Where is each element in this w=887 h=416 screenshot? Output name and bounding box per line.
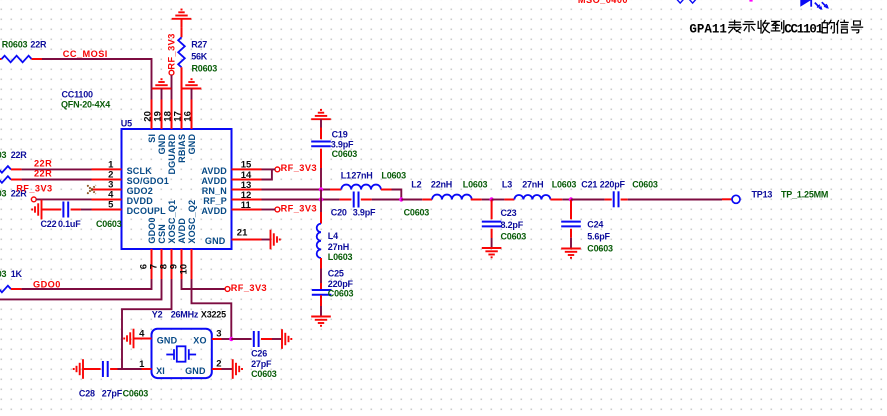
svg-text:22nH: 22nH bbox=[431, 179, 452, 189]
power port RF_3V3 (pin 11) bbox=[275, 203, 317, 213]
svg-text:22R: 22R bbox=[11, 150, 28, 160]
wire C28 node bbox=[118, 368, 142, 370]
capacitor C28 bbox=[83, 361, 118, 377]
svg-text:5.6pF: 5.6pF bbox=[587, 232, 610, 242]
wire pin 8 to crystal XI bbox=[122, 279, 172, 369]
label C24 5.6pF C0603 bbox=[587, 219, 613, 253]
svg-text:L0603: L0603 bbox=[381, 170, 406, 180]
resistor R27 56K bbox=[178, 19, 185, 100]
junction (401.3,199.5) bbox=[399, 197, 403, 201]
pin 4 DVDD bbox=[92, 190, 154, 206]
pin 9 AVDD (bottom) bbox=[169, 218, 187, 279]
pin 16 GND (top) bbox=[182, 100, 197, 155]
net label MSO_0400 (clipped at top) bbox=[578, 0, 628, 5]
resistor 22R (top-left, R0603) bbox=[0, 56, 42, 63]
crystal pin 2 GND bbox=[185, 359, 222, 377]
svg-text:0.1uF: 0.1uF bbox=[58, 219, 81, 229]
svg-text:AVDD: AVDD bbox=[177, 218, 187, 244]
ground (above R27) bbox=[172, 10, 192, 19]
svg-text:22R: 22R bbox=[34, 169, 52, 179]
label R0603 22R (row pin4, clipped) bbox=[0, 189, 27, 199]
svg-text:R27: R27 bbox=[191, 39, 207, 49]
footprint label QFN-20-4X4 bbox=[61, 100, 110, 110]
wire C25 to ground bbox=[320, 306, 322, 317]
capacitor C26 bbox=[231, 331, 282, 347]
svg-text:U5: U5 bbox=[121, 119, 132, 129]
svg-text:4: 4 bbox=[139, 328, 145, 339]
svg-text:56K: 56K bbox=[191, 51, 208, 61]
svg-text:5: 5 bbox=[108, 200, 114, 211]
svg-text:CC_MOSI: CC_MOSI bbox=[63, 49, 108, 59]
crystal Y2 26MHz X3225 body bbox=[152, 329, 212, 378]
svg-text:11: 11 bbox=[241, 200, 252, 211]
wire C21 to TP13 bbox=[628, 198, 732, 200]
svg-text:C28: C28 bbox=[79, 389, 95, 399]
net label CC_MOSI bbox=[63, 49, 108, 59]
crystal pin 4 GND bbox=[134, 328, 178, 345]
svg-text:27nH: 27nH bbox=[351, 170, 372, 180]
resistor 22R (row pin1, clipped) bbox=[0, 166, 22, 173]
pin 11 AVDD bbox=[201, 200, 261, 216]
svg-text:XI: XI bbox=[156, 366, 165, 376]
label L1 27nH L0603 bbox=[341, 170, 406, 180]
svg-text:R0603: R0603 bbox=[0, 189, 7, 199]
wire pin 15 to port bbox=[262, 168, 276, 170]
wire RF_3V3 to pin 4 bbox=[36, 198, 91, 200]
svg-text:CC1101: CC1101 bbox=[784, 22, 823, 36]
pin 8 XOSC_Q1 (bottom) bbox=[159, 200, 177, 279]
svg-text:27nH: 27nH bbox=[522, 179, 543, 189]
svg-text:SCLK: SCLK bbox=[127, 166, 153, 176]
inductor L2 22nH bbox=[401, 195, 482, 200]
svg-text:SI: SI bbox=[147, 134, 157, 143]
svg-text:C20: C20 bbox=[331, 207, 347, 217]
label TP13 bbox=[752, 190, 773, 200]
label L3 27nH L0603 bbox=[502, 179, 577, 189]
wire pin 14 tie bbox=[262, 169, 272, 179]
wire C20 to junction bbox=[372, 199, 402, 201]
wire rail tie (321) bbox=[320, 190, 322, 200]
svg-text:16: 16 bbox=[182, 111, 193, 122]
svg-text:XOSC_Q1: XOSC_Q1 bbox=[167, 200, 177, 244]
svg-text:RF_3V3: RF_3V3 bbox=[281, 203, 317, 213]
junction (231.3,339) bbox=[229, 337, 233, 341]
svg-text:C0603: C0603 bbox=[587, 243, 613, 253]
svg-text:22R: 22R bbox=[30, 39, 47, 49]
svg-text:GPA11: GPA11 bbox=[689, 22, 727, 36]
ground (C28 left, sideways) bbox=[74, 359, 83, 379]
pin 18 DGUARD (top) bbox=[162, 100, 177, 175]
svg-text:C0603: C0603 bbox=[123, 389, 149, 399]
svg-text:L2: L2 bbox=[411, 179, 421, 189]
ground (pin 16) bbox=[182, 79, 202, 99]
wire port to pin 18 bbox=[171, 75, 173, 99]
test point TP13 bbox=[732, 195, 740, 203]
svg-text:C0603: C0603 bbox=[328, 289, 354, 299]
inductor L3 27nH bbox=[492, 195, 563, 200]
svg-text:3.9pF: 3.9pF bbox=[331, 139, 354, 149]
svg-text:GND: GND bbox=[187, 134, 197, 155]
wire pin 11 to port bbox=[262, 209, 276, 211]
pin 10 XOSC_Q2 (bottom) bbox=[179, 200, 197, 279]
svg-text:3.9pF: 3.9pF bbox=[353, 207, 376, 217]
marker diamond 2 (clipped) bbox=[689, 0, 695, 3]
svg-text:27pF: 27pF bbox=[251, 359, 272, 369]
label R0603 22R (row pin1, clipped) bbox=[0, 150, 27, 160]
wire L2 to C23 node bbox=[482, 199, 492, 201]
svg-text:TP13: TP13 bbox=[752, 190, 773, 200]
pin 3 GDO2 bbox=[92, 180, 153, 196]
label C23 8.2pF C0603 bbox=[501, 208, 527, 241]
svg-text:DGUARD: DGUARD bbox=[167, 134, 177, 175]
svg-text:DVDD: DVDD bbox=[127, 196, 154, 206]
svg-text:2: 2 bbox=[216, 359, 221, 370]
svg-text:C26: C26 bbox=[251, 348, 267, 358]
svg-text:GND: GND bbox=[157, 134, 167, 155]
wire pin 10 to crystal XO bbox=[192, 279, 232, 339]
pin 5 DCOUPL bbox=[92, 200, 167, 216]
svg-text:RF_3V3: RF_3V3 bbox=[16, 184, 52, 194]
svg-text:GND: GND bbox=[205, 236, 226, 246]
svg-text:CSN: CSN bbox=[157, 224, 167, 244]
label C21 220pF C0603 bbox=[581, 180, 658, 190]
wire C19 to RN_N rail bbox=[320, 168, 322, 190]
wire pin 13 RN_N rail bbox=[262, 189, 331, 191]
svg-text:R0603: R0603 bbox=[2, 39, 28, 49]
power port RF_3V3 (pin 4) bbox=[16, 184, 52, 202]
ground (C26 right, sideways) bbox=[282, 329, 291, 349]
svg-text:3: 3 bbox=[216, 329, 221, 340]
crystal pin 1 XI bbox=[139, 359, 165, 376]
capacitor C21 220pF bbox=[571, 191, 628, 207]
inductor L4 27nH (vertical) bbox=[317, 200, 321, 259]
svg-text:AVDD: AVDD bbox=[201, 206, 227, 216]
svg-text:C0603: C0603 bbox=[501, 231, 527, 241]
svg-text:X3225: X3225 bbox=[201, 309, 226, 319]
pin 15 AVDD bbox=[201, 160, 261, 176]
pin 17 RBIAS (top) bbox=[172, 100, 187, 163]
label C26 27pF C0603 bbox=[251, 348, 277, 379]
net label 22R (pin1 wire) bbox=[34, 159, 52, 169]
wire GDO0 to pin 6 bbox=[22, 279, 152, 289]
svg-text:R0603: R0603 bbox=[0, 269, 7, 279]
svg-text:C19: C19 bbox=[332, 129, 348, 139]
marker diamond 1 (clipped) bbox=[677, 0, 683, 3]
wire pin2 to ground bbox=[222, 368, 233, 370]
pin 14 AVDD bbox=[201, 170, 261, 186]
svg-text:C0603: C0603 bbox=[404, 207, 430, 217]
label C19 3.9pF C0603 bbox=[331, 129, 358, 159]
pin 19 GND (top) bbox=[152, 100, 167, 155]
label R27 56K R0603 bbox=[191, 39, 217, 73]
svg-text:GND: GND bbox=[157, 335, 178, 345]
svg-text:GDO2: GDO2 bbox=[127, 186, 153, 196]
svg-text:C21: C21 bbox=[581, 180, 597, 190]
no-ERC cross (pin 3) bbox=[87, 185, 95, 193]
junction dot (top edge, clipped) bbox=[749, 0, 752, 2]
svg-text:220pF: 220pF bbox=[600, 180, 626, 190]
ground (crystal pin 2, sideways) bbox=[233, 359, 242, 379]
wire to pin 2 bbox=[22, 179, 92, 181]
wire L3 to C24 node bbox=[562, 199, 571, 201]
svg-text:RF_3V3: RF_3V3 bbox=[167, 33, 177, 69]
capacitor C23 bbox=[482, 200, 502, 249]
designator U5 bbox=[121, 119, 132, 129]
svg-text:QFN-20-4X4: QFN-20-4X4 bbox=[61, 100, 110, 110]
svg-text:GDO0: GDO0 bbox=[147, 217, 157, 243]
svg-text:RF_3V3: RF_3V3 bbox=[231, 283, 267, 293]
inductor L1 27nH bbox=[330, 185, 392, 190]
svg-text:XO: XO bbox=[193, 335, 206, 345]
svg-text:L3: L3 bbox=[502, 179, 512, 189]
svg-text:RN_N: RN_N bbox=[202, 186, 227, 196]
wire pin 12 RF_P rail bbox=[262, 199, 340, 201]
svg-text:RF_3V3: RF_3V3 bbox=[281, 163, 317, 173]
label C25 220pF C0603 bbox=[328, 269, 354, 299]
junction (571,199.5) bbox=[569, 197, 573, 201]
svg-text:R0603: R0603 bbox=[0, 150, 7, 160]
capacitor C25 bbox=[312, 258, 332, 306]
svg-text:R0603: R0603 bbox=[192, 63, 218, 73]
svg-text:L0603: L0603 bbox=[463, 179, 488, 189]
svg-text:1: 1 bbox=[139, 359, 145, 370]
pin 6 GDO0 (bottom) bbox=[139, 217, 157, 279]
ground (below C25) bbox=[311, 317, 331, 326]
wire pin3 node bbox=[222, 338, 232, 340]
svg-text:AVDD: AVDD bbox=[201, 166, 227, 176]
label TP_1.25MM bbox=[781, 190, 828, 200]
resistor 22R (row pin2, clipped) bbox=[0, 176, 22, 183]
pin 12 RF_P bbox=[203, 190, 261, 206]
wire CC_MOSI to pin 20 bbox=[42, 59, 152, 100]
svg-text:C0603: C0603 bbox=[332, 149, 358, 159]
svg-text:L1: L1 bbox=[341, 170, 351, 180]
label L4 27nH L0603 bbox=[328, 231, 353, 262]
svg-text:C23: C23 bbox=[501, 208, 517, 218]
capacitor C20 bbox=[340, 192, 372, 208]
svg-text:1K: 1K bbox=[11, 269, 23, 279]
wire pin 9 to port bbox=[182, 279, 226, 289]
svg-text:10: 10 bbox=[179, 264, 190, 275]
resistor 1K (bottom-left, clipped) bbox=[0, 286, 22, 293]
wire pin 21 to ground bbox=[262, 239, 271, 241]
cursor icon (clipped) bbox=[800, 0, 829, 10]
pin 20 SI (top) bbox=[142, 100, 157, 143]
svg-text:Y2: Y2 bbox=[152, 309, 163, 319]
capacitor C19 bbox=[311, 119, 331, 168]
svg-text:AVDD: AVDD bbox=[201, 176, 227, 186]
label R0603 1K (clipped) bbox=[0, 269, 23, 279]
label Y2 26MHz X3225 bbox=[152, 309, 226, 319]
annotation text GPA11表示收到CC1101的信号 bbox=[689, 20, 862, 36]
svg-text:GDO0: GDO0 bbox=[33, 279, 61, 289]
label C28 27pF C0603 bbox=[79, 389, 148, 399]
ground (pin 19) bbox=[152, 79, 172, 99]
svg-text:22R: 22R bbox=[34, 159, 52, 169]
svg-text:26MHz: 26MHz bbox=[171, 309, 199, 319]
wire to pin 1 bbox=[22, 168, 92, 170]
svg-text:C22: C22 bbox=[41, 219, 57, 229]
svg-text:TP_1.25MM: TP_1.25MM bbox=[781, 190, 828, 200]
pin 13 RN_N bbox=[202, 180, 262, 196]
power port RF_3V3 (pin 15) bbox=[275, 163, 317, 173]
svg-text:L0603: L0603 bbox=[552, 179, 577, 189]
junction (321,199.5) bbox=[319, 197, 323, 201]
svg-text:CC1100: CC1100 bbox=[62, 90, 94, 100]
net label GDO0 bbox=[33, 279, 61, 289]
wire pin 7 to left edge bbox=[0, 279, 162, 299]
svg-text:XOSC_Q2: XOSC_Q2 bbox=[187, 200, 197, 244]
svg-text:27pF: 27pF bbox=[102, 389, 123, 399]
svg-text:RBIAS: RBIAS bbox=[177, 134, 187, 163]
svg-text:21: 21 bbox=[237, 228, 248, 239]
ground (below C23) bbox=[482, 248, 502, 257]
svg-text:L0603: L0603 bbox=[328, 252, 353, 262]
svg-text:C24: C24 bbox=[587, 219, 603, 229]
power port RF_3V3 (pin 9) bbox=[225, 283, 267, 293]
svg-text:C25: C25 bbox=[328, 269, 344, 279]
svg-text:SO/GDO1: SO/GDO1 bbox=[127, 176, 169, 186]
label C20 3.9pF C0603 bbox=[331, 207, 430, 217]
wire C22 to pin 5 bbox=[81, 209, 92, 211]
junction (491.6,199.5) bbox=[489, 197, 493, 201]
ground (above C19) bbox=[311, 110, 331, 119]
label L2 22nH L0603 bbox=[411, 179, 487, 189]
pin 1 SCLK bbox=[92, 160, 153, 176]
svg-text:GND: GND bbox=[185, 366, 206, 376]
ground (C22 left, sideways) bbox=[32, 200, 41, 220]
svg-text:MSO_0400: MSO_0400 bbox=[578, 0, 628, 5]
svg-text:C0603: C0603 bbox=[251, 369, 277, 379]
power port RF_3V3 (pin 18, vertical) bbox=[167, 33, 177, 75]
pin 7 CSN (bottom) bbox=[149, 224, 167, 279]
ground (crystal pin 4, sideways) bbox=[124, 329, 133, 349]
pin 21 GND bbox=[205, 228, 262, 246]
IC U5 CC1100 body bbox=[122, 129, 232, 249]
junction (321,189.5) bbox=[319, 187, 323, 191]
wire L1 step down bbox=[392, 190, 402, 200]
crystal pin 3 XO bbox=[193, 329, 221, 346]
pin 2 SO/GDO1 bbox=[92, 170, 170, 186]
svg-text:DCOUPL: DCOUPL bbox=[127, 206, 167, 216]
comment label CC1100 bbox=[62, 90, 94, 100]
svg-text:8.2pF: 8.2pF bbox=[501, 220, 524, 230]
svg-text:220pF: 220pF bbox=[328, 279, 354, 289]
svg-text:RF_P: RF_P bbox=[203, 196, 227, 206]
label R0603 22R (top-left) bbox=[2, 39, 47, 49]
svg-text:27nH: 27nH bbox=[328, 242, 349, 252]
svg-text:C0603: C0603 bbox=[632, 180, 658, 190]
svg-text:C0603: C0603 bbox=[96, 219, 122, 229]
net label 22R (pin2 wire) bbox=[34, 169, 52, 179]
capacitor C24 bbox=[561, 200, 581, 249]
svg-text:L4: L4 bbox=[328, 231, 338, 241]
ground (pin 21, sideways) bbox=[271, 230, 280, 250]
capacitor C22 bbox=[42, 202, 81, 218]
label C22 0.1uF C0603 bbox=[41, 219, 122, 229]
ground (below C24) bbox=[561, 249, 581, 258]
